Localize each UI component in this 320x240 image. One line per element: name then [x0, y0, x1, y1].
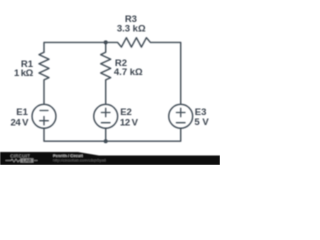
- svg-text:http://circuitlab.com/c8qb5ya8: http://circuitlab.com/c8qb5ya8: [53, 158, 107, 163]
- svg-text:5 V: 5 V: [194, 117, 209, 128]
- svg-text:1 kΩ: 1 kΩ: [14, 68, 34, 79]
- svg-text:LAB: LAB: [23, 158, 32, 163]
- svg-text:4.7 kΩ: 4.7 kΩ: [114, 67, 143, 78]
- svg-text:E1: E1: [16, 107, 28, 118]
- svg-text:3.3 kΩ: 3.3 kΩ: [117, 24, 146, 35]
- svg-text:24 V: 24 V: [10, 118, 29, 129]
- svg-text:12 V: 12 V: [120, 117, 139, 128]
